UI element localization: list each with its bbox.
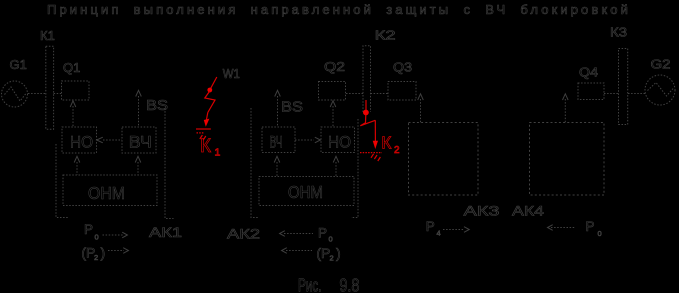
svg-text:Принцип выполнения направленно: Принцип выполнения направленной защиты с… <box>47 2 631 17</box>
svg-text:Q1: Q1 <box>63 60 80 75</box>
wire line to set AK3 riser with up arrow <box>420 99 422 123</box>
svg-text:АК3: АК3 <box>464 203 500 219</box>
arrowhead into Q1 <box>70 101 76 107</box>
breaker Q4 <box>578 83 604 100</box>
wire BS channel riser with up arrow (AK2) <box>277 96 279 127</box>
bus K1 <box>46 46 54 129</box>
bus K3 <box>619 49 628 125</box>
fault K2 red node dot <box>363 110 369 116</box>
svg-text:НО: НО <box>70 133 93 152</box>
svg-text:К3: К3 <box>610 25 627 40</box>
bracket left of set AK2 <box>251 108 259 218</box>
fault K1 red feeder line <box>210 77 217 90</box>
wire bus K3 to G2 <box>628 93 646 95</box>
set AK3 dashed box <box>409 123 479 196</box>
block ОНМ (AK2) <box>259 177 354 206</box>
wire trip НО to Q2 (riser with up arrow) <box>332 106 334 127</box>
wire ОНМ to НО with up arrow <box>76 162 78 175</box>
svg-text:Р: Р <box>318 226 327 241</box>
breaker Q2 <box>319 82 346 101</box>
fault K2 red bus segment <box>365 100 367 110</box>
block НО (AK2) <box>321 127 355 153</box>
wire bus K1 to Q1 <box>54 93 61 95</box>
fault K1 arrow head <box>204 119 210 127</box>
fault K2 lightning zigzag <box>360 115 375 126</box>
fault K1 ground bar <box>196 128 211 130</box>
wire BS channel riser with up arrow (AK1) <box>138 96 140 127</box>
svg-text:W1: W1 <box>223 67 240 81</box>
wire Q4 to bus K3 <box>604 93 619 95</box>
svg-text:АК1: АК1 <box>149 224 182 240</box>
left dashed arrow (P2) (AK2) <box>282 248 287 254</box>
breaker Q1 <box>62 81 90 100</box>
svg-text:Q4: Q4 <box>579 65 598 80</box>
wire line to set AK4 riser with up arrow <box>564 99 566 123</box>
svg-text:2: 2 <box>94 253 98 262</box>
fault K2 arrow head <box>373 141 378 149</box>
wire ВЧ to НО with right arrow (AK2) <box>295 139 314 141</box>
left dashed arrow P0 (AK4) <box>548 225 553 231</box>
svg-text:2: 2 <box>330 254 334 263</box>
svg-text:К: К <box>200 136 211 157</box>
fault K2 ground hatches <box>371 154 380 161</box>
arrowhead into НО (AK2) <box>315 137 321 143</box>
svg-text:1: 1 <box>215 147 221 159</box>
generator G1 sine <box>5 87 27 101</box>
left dashed arrow P0 (AK2) <box>280 231 285 237</box>
svg-text:G2: G2 <box>651 57 671 72</box>
svg-text:G1: G1 <box>10 57 27 72</box>
svg-text:Р: Р <box>84 222 93 237</box>
wire trip НО to Q1 (riser with up arrow) <box>72 106 74 127</box>
fault K1 red node dot <box>207 88 212 93</box>
fault K2 ground bar <box>360 152 382 154</box>
fault K2 arrow shaft <box>374 120 376 141</box>
svg-text:НО: НО <box>328 133 351 152</box>
svg-text:Р: Р <box>586 219 595 234</box>
bracket right of set AK1 <box>165 108 174 219</box>
svg-text:0: 0 <box>329 235 333 244</box>
svg-text:4: 4 <box>437 229 441 238</box>
set AK4 dashed box <box>530 123 605 196</box>
wire Q2 to bus K2 <box>346 93 363 95</box>
svg-text:Q3: Q3 <box>393 60 412 75</box>
fault K1 ground bar 2 <box>197 132 205 134</box>
bracket left of set AK1 <box>56 144 68 218</box>
block НО (AK1) <box>62 127 97 153</box>
arrowhead into НО <box>97 137 103 143</box>
wire ВЧ to НО with left arrow <box>103 139 122 141</box>
svg-text:К2: К2 <box>375 28 396 43</box>
svg-text:АК4: АК4 <box>512 203 544 219</box>
block ОНМ (AK1) <box>63 175 157 206</box>
fault K1 arrow shaft <box>206 113 207 121</box>
breaker Q3 <box>388 82 416 101</box>
svg-text:2: 2 <box>394 145 400 156</box>
generator G2 <box>645 75 675 105</box>
svg-text:0: 0 <box>598 229 602 238</box>
block ВЧ (AK1) <box>122 127 156 153</box>
arrowhead up BS (AK1) <box>136 90 142 96</box>
wire G1 to bus K1 <box>28 93 46 95</box>
svg-text:0: 0 <box>95 233 99 242</box>
svg-text:Р: Р <box>426 219 435 234</box>
wire bus K2 to Q3 <box>371 93 389 95</box>
svg-text:ВЧ: ВЧ <box>129 133 152 152</box>
fault K1 ground hatches <box>200 135 206 140</box>
generator G2 sine <box>648 83 675 97</box>
svg-text:АК2: АК2 <box>227 226 260 242</box>
bracket right of set AK2 <box>351 119 358 218</box>
svg-text:BS: BS <box>281 99 303 116</box>
fault K1 lightning zigzag <box>205 91 215 113</box>
wire ОНМ to НО with up arrow (AK2) <box>335 162 337 176</box>
svg-text:ВЧ: ВЧ <box>270 133 283 152</box>
svg-text:9.8: 9.8 <box>339 274 359 293</box>
bus K2 <box>363 46 371 112</box>
svg-text:): ) <box>101 245 106 261</box>
svg-text:К1: К1 <box>40 28 55 43</box>
svg-text:): ) <box>336 245 341 261</box>
svg-text:(Р: (Р <box>316 245 330 261</box>
block ВЧ (AK2) <box>262 127 295 153</box>
generator G1 <box>2 81 28 107</box>
svg-text:ОНМ: ОНМ <box>288 182 323 202</box>
svg-text:ОНМ: ОНМ <box>88 183 125 203</box>
wire ОНМ to ВЧ with up arrow (AK2) <box>276 162 278 176</box>
svg-text:Q2: Q2 <box>324 59 345 74</box>
wire ОНМ to ВЧ with up arrow <box>137 162 139 175</box>
svg-text:Рис.: Рис. <box>298 274 322 293</box>
svg-text:К: К <box>381 133 392 153</box>
